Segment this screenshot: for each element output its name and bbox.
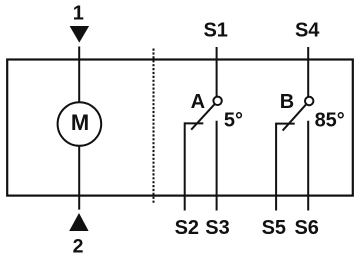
svg-text:M: M: [71, 110, 89, 135]
svg-text:S4: S4: [295, 20, 320, 42]
dotted separator line: [153, 49, 155, 204]
svg-text:S1: S1: [203, 20, 227, 42]
wire S2: [184, 122, 186, 210]
svg-text:S5: S5: [262, 217, 286, 239]
switch B contact bar: [276, 123, 295, 125]
wire S3: [216, 121, 218, 211]
motor M circle: [58, 102, 102, 146]
wire S4 to switch B pivot: [307, 47, 309, 97]
terminal 1 arrow: [70, 26, 90, 43]
wire terminal 1 to motor: [78, 47, 80, 104]
switch A pivot circle: [213, 97, 221, 105]
switch B blade: [283, 104, 307, 131]
svg-text:S2: S2: [175, 217, 199, 239]
wire S1 to switch A pivot: [216, 47, 218, 97]
svg-text:5°: 5°: [224, 110, 243, 132]
wire S5: [275, 123, 277, 211]
svg-text:85°: 85°: [315, 110, 345, 132]
svg-text:S6: S6: [294, 217, 318, 239]
svg-text:B: B: [280, 91, 294, 113]
terminal 2 arrow: [69, 213, 88, 231]
wire motor to terminal 2: [78, 146, 80, 210]
wire S6: [307, 121, 309, 211]
switch A blade: [191, 104, 215, 130]
enclosure box: [7, 60, 353, 196]
svg-text:2: 2: [73, 236, 84, 258]
svg-text:A: A: [191, 91, 205, 113]
svg-text:S3: S3: [205, 217, 229, 239]
svg-text:1: 1: [73, 3, 84, 25]
switch B pivot circle: [305, 97, 313, 105]
switch A contact bar: [185, 122, 204, 124]
